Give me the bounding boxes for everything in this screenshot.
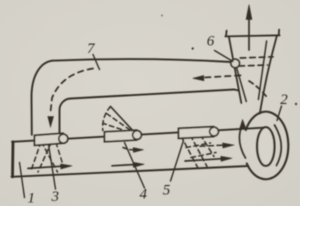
elbow inner curve and right wall	[60, 99, 72, 134]
fan 4 left dashed arc	[103, 107, 111, 131]
nozzle 5 dashed spray fan	[181, 135, 216, 170]
svg-text:4: 4	[140, 186, 148, 202]
funnel left inner wall	[236, 67, 246, 102]
lower flow arrow near 5	[185, 159, 222, 161]
feed cylinder 3 body	[35, 133, 64, 145]
leader line for 3	[49, 145, 56, 190]
speck right edge	[295, 103, 297, 105]
dashed curve from funnel down into casing	[249, 81, 268, 99]
outlet arrow (up) shaft	[248, 18, 250, 50]
dashed flow row in funnel (upper)	[240, 57, 273, 58]
leader line for 4	[125, 143, 145, 189]
roller 6 circle on funnel wall	[231, 59, 240, 68]
nozzle 3 dashed spray fan	[31, 142, 58, 172]
svg-text:2: 2	[280, 92, 288, 108]
pipe 1 bottom line	[12, 166, 249, 177]
funnel right outer wall	[260, 36, 277, 114]
elbow outer curve and left wall	[32, 61, 53, 135]
leader line for 1	[20, 163, 25, 198]
arrowhead near 3	[61, 164, 73, 169]
dashed flow row in funnel (lower)	[239, 65, 268, 66]
circulation curved arrow inside casing	[239, 126, 245, 159]
funnel left outer wall	[229, 36, 242, 103]
outlet arrow head	[246, 5, 252, 20]
svg-text:1: 1	[28, 191, 36, 207]
duct flow arrowhead (left)	[193, 76, 204, 81]
dashed flow curve in elbow	[51, 69, 94, 113]
arrowhead dashed under 4	[133, 148, 144, 153]
nozzle 4 spray fan (above pipe)	[111, 107, 137, 135]
lower arrowhead near 5	[221, 156, 232, 161]
pipe right end face ellipse	[257, 127, 274, 166]
flow arrow in pipe near 3	[28, 166, 62, 168]
dashed wisp left of nozzle 3	[56, 143, 63, 166]
upper dashed arrow near 5	[200, 145, 222, 146]
duct 7 top line	[52, 59, 232, 62]
funnel 6: top rim	[225, 35, 279, 36]
nozzle cylinder 4 end cap	[133, 131, 142, 140]
blower casing ellipse 2 (with gap where pipe covers its left side)	[246, 112, 289, 180]
svg-text:6: 6	[207, 34, 215, 50]
svg-text:3: 3	[51, 189, 60, 205]
feed cylinder 3 end cap	[59, 134, 68, 143]
speck top middle	[161, 15, 163, 17]
dashed curved arrow under 4	[123, 148, 136, 150]
leader line for 6	[215, 51, 234, 62]
duct 7 bottom line	[71, 90, 239, 99]
speck near 6	[192, 47, 194, 49]
casing inner arc (right of pipe end)	[275, 125, 282, 166]
nozzle cylinder 5 body	[179, 127, 214, 139]
funnel rim end ticks	[226, 30, 279, 37]
nozzle cylinder 4 body	[105, 130, 137, 142]
dashed flow arrow in duct (pointing left)	[202, 75, 241, 77]
flow arrow in pipe near 4	[112, 165, 135, 166]
pipe 1 top line	[12, 128, 266, 142]
elbow flow arrowhead (down)	[48, 117, 54, 128]
pipe 1 left end cap	[11, 142, 14, 177]
leader line for 2	[277, 106, 282, 121]
funnel right inner wall	[258, 41, 266, 100]
arrowhead near 4	[133, 162, 144, 167]
nozzle cylinder 5 end cap	[210, 127, 219, 136]
upper arrowhead near 5	[223, 143, 235, 148]
circulation arrowhead	[239, 120, 245, 130]
svg-text:5: 5	[163, 183, 171, 199]
leader line for 5	[171, 141, 184, 182]
leader line for 7	[93, 55, 100, 70]
